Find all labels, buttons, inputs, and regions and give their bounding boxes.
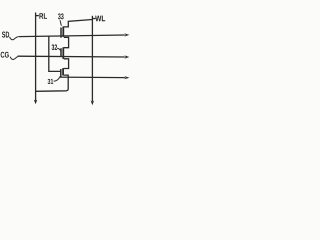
label 32 <box>52 44 57 50</box>
wire: Q32 source jog down to Q31 drain <box>64 59 69 69</box>
wire: Q33 drain lead up to WL line <box>64 20 93 27</box>
transistor Q32 channel bar <box>62 47 64 59</box>
arrowhead at WL line bottom <box>91 101 95 106</box>
wire: SD horizontal line <box>18 35 125 37</box>
transistor Q31 channel bar <box>62 68 64 75</box>
arrowhead at bottom line right end <box>124 76 129 79</box>
leader hook from label 32 to Q32 gate <box>57 48 61 50</box>
arrowhead at CG line right end <box>124 55 129 58</box>
wire: RL vertical line <box>35 13 37 101</box>
label tick for RL <box>36 15 39 17</box>
transistor Q33 channel bar <box>62 26 64 37</box>
leader hook from label 31 to Q31 gate <box>54 78 60 81</box>
leader line from label 33 to Q33 gate <box>60 20 61 26</box>
label 31 <box>48 79 54 84</box>
arrowhead at SD line right end <box>124 33 129 36</box>
label dash for WL <box>93 18 96 20</box>
transistor Q31 gate bar <box>60 69 62 77</box>
label 33 <box>58 13 64 19</box>
net label SD <box>2 32 9 38</box>
wire: branch from SD line down to Q31 gate <box>49 36 61 71</box>
wire: CG horizontal line <box>18 55 125 58</box>
net label WL <box>95 16 105 22</box>
wire: bottom horizontal line A <box>59 76 125 79</box>
wire: WL vertical line <box>91 16 93 102</box>
transistor Q32 gate bar <box>60 48 62 57</box>
wire: Q33 source jog down to Q32 drain <box>64 37 69 47</box>
transistor Q33 gate bar <box>60 28 62 38</box>
net label RL <box>39 13 47 19</box>
squiggle connector from CG label to CG line <box>10 57 18 60</box>
arrowhead at RL line bottom <box>34 100 38 105</box>
net label CG <box>1 52 9 58</box>
wire: return jog from bottom line down and left to RL line <box>36 77 68 91</box>
wire: Q31 source lead down to bottom line <box>64 75 69 77</box>
squiggle connector from SD label to SD line <box>10 37 18 40</box>
